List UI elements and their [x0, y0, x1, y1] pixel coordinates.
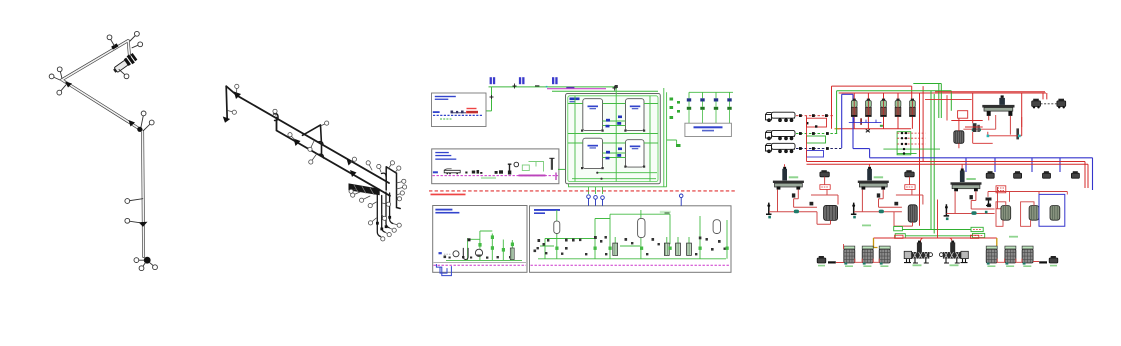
box4 vessel B: [638, 218, 645, 237]
dashes between pumps: [1041, 103, 1057, 105]
box4 green piping: [538, 210, 727, 259]
reactor red drops from bus: [785, 164, 963, 168]
box2 border: [432, 149, 559, 184]
weld tick near mid elbow: [129, 120, 136, 127]
black cross on header: [490, 84, 517, 100]
reactor R3: [944, 169, 995, 221]
magenta line top of big box: [547, 88, 606, 90]
red top bus lines: [832, 86, 1047, 226]
filter press 1: [904, 241, 932, 263]
filter press 2: [939, 241, 968, 263]
drop leg 3: [386, 192, 389, 228]
arrow tick line2: [294, 139, 301, 147]
right mid tanks: [1001, 206, 1060, 221]
C-mark lower connector: [319, 154, 324, 158]
vessel V4: [626, 140, 645, 167]
big box blue title: [570, 98, 580, 101]
storage tank TK-R1: [986, 246, 997, 265]
blue instrument pair C: [552, 77, 558, 84]
truck1 red loop: [807, 118, 827, 127]
green link line second: [552, 90, 658, 92]
box3 blue title: [435, 209, 452, 211]
red label box R3: [996, 186, 1006, 193]
box1 red label text: [467, 108, 477, 109]
red riser from trucks: [806, 116, 808, 162]
box3 border: [433, 206, 527, 273]
box1 symbol row: [451, 112, 466, 114]
top right pump A: [1032, 99, 1041, 109]
big box black nozzle marks: [581, 85, 645, 169]
box1 blue dashed line: [433, 114, 483, 116]
storage tank TK-R3: [1022, 246, 1033, 265]
truck3 blue loop: [807, 151, 824, 158]
balloons iso2: [228, 84, 407, 241]
truck2 green dashed feed: [796, 133, 838, 135]
box3 J-tube: [463, 248, 468, 260]
R1 drop tank: [824, 205, 838, 220]
swan-neck branch (triangle): [303, 125, 322, 144]
blue inter-column links: [849, 118, 882, 123]
pipe run main (double-line): [62, 41, 144, 257]
weld arrow on vertical pipe: [139, 222, 148, 227]
bottom left pump: [817, 256, 826, 263]
truck 1: [766, 112, 796, 121]
red loops around tanks: [988, 192, 1067, 227]
bottom distribution red line: [874, 237, 997, 239]
box1 border: [432, 93, 487, 127]
blue instrument pair B: [519, 77, 525, 84]
truck1 red dashed feed: [796, 115, 833, 117]
hatched vessel right: [954, 131, 964, 144]
black bowtie under red line: [866, 129, 870, 132]
tick on line1: [347, 159, 354, 166]
box3 black glyph row: [444, 256, 512, 259]
drop leg 4: [390, 193, 393, 224]
right top: red header: [935, 91, 1045, 93]
box1 blue feed bar: [433, 111, 440, 113]
big box blue pumps mid bottom: [606, 148, 623, 160]
bottom right pump: [1049, 256, 1058, 263]
storage tank TK-L1: [844, 246, 855, 265]
big box green inner border: [568, 96, 658, 182]
storage tank TK-R2: [1005, 246, 1016, 265]
black cross at box corner: [613, 86, 618, 91]
black dash mark: [535, 85, 539, 86]
green connector boxes: [894, 227, 985, 239]
red note text: [431, 194, 466, 196]
balloon callouts: [49, 31, 157, 270]
green ladder box: [897, 132, 911, 155]
big box blue pumps mid top: [606, 116, 623, 128]
vertical stub pipe: [226, 86, 227, 119]
truck 3: [766, 143, 796, 152]
box2 pump cluster 1: [465, 170, 482, 174]
red piping top right: [925, 95, 1022, 148]
truck3 blue dashed feed: [796, 148, 842, 150]
top column 1: [851, 99, 857, 117]
box2 magenta dashed: [433, 175, 559, 177]
box4 blue instruments above top: [587, 194, 683, 206]
box3 blue instrument top: [439, 252, 442, 254]
top right pump B: [1057, 99, 1066, 109]
box4 hatched columns: [613, 243, 692, 255]
box3 hatched column: [510, 248, 514, 260]
R2 drop tank: [908, 205, 917, 222]
box4 magenta dashed: [531, 264, 731, 266]
box3 magenta dashed: [434, 262, 527, 264]
box4 vessel A: [554, 221, 560, 233]
arrowhead start: [234, 92, 241, 100]
PFD DRAWING 4: [766, 84, 1093, 268]
box2 blue tick left: [433, 171, 438, 173]
feed line diamonds: [799, 114, 829, 150]
box2 green piping right: [529, 162, 544, 172]
valve body V1: [111, 52, 137, 75]
right cluster small green items: [670, 98, 681, 120]
box3 green piping: [446, 231, 522, 260]
box4 black glyph clusters: [534, 236, 726, 255]
red pipes left group: [836, 244, 879, 263]
box2 exit green line: [558, 168, 566, 170]
right cluster symbol row2: [687, 107, 732, 110]
ISO DRAWING 2: [223, 84, 407, 241]
green top header line: [489, 86, 617, 88]
tick on line2: [350, 170, 357, 177]
storage tank TK-L3: [879, 246, 890, 265]
green top lines: [837, 84, 952, 234]
purple dash accent: [566, 87, 574, 89]
manifold rack: [349, 183, 380, 195]
pipe stub vertical at valve: [128, 41, 129, 58]
elbow fitting mid: [137, 127, 142, 132]
black stand left of tanks: [986, 198, 992, 201]
cyan ticks: [987, 135, 990, 138]
top column 2: [866, 99, 872, 117]
box2 green block: [522, 165, 529, 171]
bottom left tick: [828, 261, 836, 263]
agitated tank T2: [963, 95, 1014, 134]
connector between lines: [321, 144, 323, 156]
right cluster symbol row1: [687, 98, 732, 101]
blue top lines: [842, 94, 1093, 190]
yellow drops: [874, 238, 997, 249]
central red riser and press curve: [921, 200, 953, 245]
leg ticks: [376, 216, 391, 230]
reactor R2: [851, 167, 902, 219]
box4 vessel C: [713, 220, 720, 234]
vessel V3: [583, 138, 603, 168]
vessel V1: [583, 99, 603, 131]
box4 blue title: [534, 209, 560, 211]
box2 pump circle: [514, 162, 519, 167]
branch elbow C-mark: [274, 114, 279, 121]
stub top link: [226, 86, 237, 95]
box3 pumps: [453, 251, 459, 257]
drop leg 1: [377, 195, 380, 237]
box4 green valves: [555, 247, 728, 250]
blue instrument pair A: [490, 77, 496, 84]
right cluster label box: [685, 123, 732, 136]
pipe line 2 (lower parallel): [277, 118, 391, 196]
tiny green label: [1009, 236, 1018, 238]
drop leg 2: [382, 196, 385, 233]
box2 trailer outline: [444, 170, 460, 173]
storage tank TK-L2: [862, 246, 873, 265]
top column 4: [895, 99, 901, 117]
bottom right tick: [1039, 261, 1047, 263]
big box border: [566, 94, 661, 184]
box2 pump cluster 2: [495, 170, 503, 174]
PID DRAWING 3: [429, 77, 736, 275]
green bracket below big box: [569, 184, 667, 194]
box2 right column: [551, 158, 553, 170]
right cluster top bus: [689, 92, 733, 98]
weld arrow on left-lower pipe: [65, 82, 72, 88]
weld tick on top pipe: [111, 43, 118, 49]
box4 border: [530, 206, 732, 272]
red pipes right group: [997, 259, 1039, 263]
box4 green label: [660, 211, 671, 213]
red label boxes on bottom line: [895, 235, 903, 238]
mid band red buses: [807, 162, 1089, 189]
truck 2: [766, 130, 796, 139]
R3 link to tank row: [996, 187, 1002, 209]
right cluster green verticals: [664, 88, 667, 187]
box3 blue sump: [436, 264, 451, 276]
green drop to box1: [491, 87, 493, 111]
stub anchor foot: [223, 117, 230, 123]
vessel V2: [626, 99, 645, 131]
ISO DRAWING 1: [49, 31, 157, 270]
blue loop around tank3: [1039, 194, 1065, 226]
green labels under bottom row: [818, 264, 1057, 267]
green stub below label box: [667, 140, 677, 144]
top column 3: [881, 99, 887, 117]
small black columns: [973, 123, 977, 132]
bottom fitting: [144, 257, 151, 264]
riser pipe at cluster: [386, 167, 400, 209]
cyan tick: [546, 86, 548, 88]
red battery limit dashed line: [429, 190, 736, 192]
pumps row right: [986, 171, 1079, 178]
C-mark at branch base: [318, 142, 323, 145]
box2 blue title 3 lines: [435, 152, 449, 153]
truck2 green loop: [807, 136, 826, 143]
box1 blue title text: [435, 96, 456, 97]
big box green piping: [568, 87, 658, 182]
top column 5: [910, 99, 916, 117]
box1 red equipment block: [466, 111, 478, 114]
box2 faint green watermark: [481, 177, 496, 179]
box1 green dashes: [440, 118, 452, 120]
box3 green valves: [478, 235, 514, 251]
box2 agitator column: [508, 164, 512, 174]
reactor R1: [766, 167, 817, 219]
main pipe line 1: [237, 95, 389, 183]
red label box top right: [958, 111, 968, 119]
